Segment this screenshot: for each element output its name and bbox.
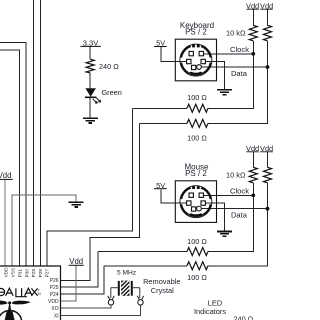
svg-text:Vdd: Vdd [0, 171, 11, 180]
ground below LED [83, 118, 98, 123]
mouse connector box [175, 181, 216, 223]
svg-text:Removable: Removable [143, 277, 180, 286]
svg-text:M: M [38, 292, 41, 296]
resistor R4 10k mouse clock pullup [249, 167, 257, 183]
svg-text:PS / 2: PS / 2 [185, 169, 207, 178]
ground keyboard connector [217, 90, 232, 95]
wire keyboard data row right segment [208, 67, 268, 123]
svg-text:P29: P29 [31, 269, 36, 278]
ground mouse connector [217, 232, 232, 237]
wire keyboard clock row left segment [132, 107, 187, 109]
svg-text:P30: P30 [24, 269, 29, 278]
svg-text:10 kΩ: 10 kΩ [226, 28, 246, 37]
svg-text:P28: P28 [38, 269, 43, 278]
wire mouse 5V feed [161, 190, 187, 203]
svg-text:240 Ω: 240 Ω [234, 315, 254, 320]
wire P28 net from top edge [39, 0, 41, 266]
svg-text:Clock: Clock [230, 187, 249, 196]
Parallax propeller beanie icon [0, 301, 31, 320]
label Vdd at left edge [0, 171, 13, 180]
resistor R3 10k keyboard data pullup [264, 25, 272, 41]
resistor R6 100 keyboard clock series [187, 104, 208, 112]
svg-text:Data: Data [231, 69, 248, 78]
wire P24 to mouse data row [61, 266, 104, 294]
chip right pin labels [48, 278, 59, 319]
resistor R2 10k keyboard clock pullup [249, 25, 257, 41]
svg-text:240 Ω: 240 Ω [99, 62, 119, 71]
wire P25 to mouse clock row [61, 252, 98, 288]
resistor R5 10k mouse data pullup [264, 167, 272, 183]
Parallax logo text [0, 288, 38, 297]
svg-text:P24: P24 [50, 292, 59, 298]
wire mouse data row left segment [104, 265, 187, 267]
svg-text:Indicators: Indicators [194, 307, 226, 316]
wire mouse clock row left segment [98, 251, 187, 253]
resistor R9 100 mouse data series [187, 262, 208, 270]
svg-text:100 Ω: 100 Ω [187, 273, 207, 282]
wire mouse 10k pullup right [267, 152, 269, 209]
wire keyboard 5V feed [161, 47, 187, 62]
resistor R1 240 ohm [86, 59, 94, 73]
wire keyboard 10k pullup right [267, 9, 269, 67]
wire VDD top pin stub [4, 180, 6, 266]
resistor R7 100 keyboard data series [187, 119, 208, 127]
wire mouse clock line [204, 194, 254, 196]
label mouse 5V [154, 181, 167, 190]
svg-text:VDD: VDD [3, 267, 8, 278]
svg-text:VSS: VSS [10, 268, 15, 277]
wire keyboard clock row right segment [208, 54, 253, 108]
crystal socket right [137, 296, 143, 305]
LED D1 green [85, 88, 101, 103]
wire P30 net from left edge [0, 43, 26, 266]
junction dot keyboard clock [251, 52, 255, 56]
label keyboard 5V [154, 39, 167, 48]
keyboard connector box [175, 39, 216, 81]
wire mouse clock row right segment [208, 196, 253, 252]
svg-text:XI: XI [54, 314, 59, 320]
ground for VSS pin [69, 202, 84, 207]
label mouse Vdd pair [246, 144, 273, 153]
wire keyboard connector ground lead [205, 61, 224, 89]
svg-text:P26: P26 [50, 278, 59, 284]
chip U1 Propeller outline [0, 266, 61, 320]
svg-text:PS / 2: PS / 2 [185, 27, 207, 36]
label keyboard Vdd pair [246, 1, 273, 10]
crystal socket left [108, 296, 114, 305]
svg-text:Crystal: Crystal [151, 286, 174, 295]
wire mouse connector ground lead [205, 203, 224, 231]
wire keyboard data line [202, 66, 268, 68]
wire P26 to keyboard data row [61, 123, 140, 280]
svg-text:Clock: Clock [230, 45, 249, 54]
wire P31 net from left edge [0, 50, 19, 266]
svg-text:5 MHz: 5 MHz [117, 269, 136, 276]
mouse PS/2 mini-DIN face [180, 186, 212, 218]
svg-text:P31: P31 [18, 269, 23, 278]
wire XO to crystal socket [61, 306, 112, 308]
label 3.3V [80, 38, 101, 47]
svg-text:Data: Data [231, 211, 248, 220]
svg-text:P25: P25 [50, 285, 59, 291]
keyboard PS/2 mini-DIN face [180, 44, 212, 76]
svg-text:10 kΩ: 10 kΩ [226, 170, 246, 179]
wire mouse 10k pullup left [252, 152, 254, 195]
wire keyboard data row left segment [139, 122, 187, 124]
wire mouse data row right segment [208, 209, 268, 266]
svg-text:XO: XO [51, 306, 58, 312]
wire keyboard clock line [204, 53, 254, 55]
svg-text:100 Ω: 100 Ω [187, 134, 207, 143]
svg-text:P27: P27 [44, 269, 49, 278]
junction dot mouse data [266, 207, 270, 211]
wire Vdd to chip VDD right pin [61, 266, 76, 301]
svg-text:VDD: VDD [48, 299, 59, 305]
svg-text:100 Ω: 100 Ω [187, 237, 207, 246]
wire P29 net from top edge [33, 0, 35, 266]
junction dot mouse clock [251, 194, 255, 198]
chip top pin labels rotated [3, 267, 49, 278]
resistor R8 100 mouse clock series [187, 248, 208, 256]
junction dot keyboard data [266, 65, 270, 69]
wire VSS pin to ground [12, 195, 76, 266]
wire keyboard 10k pullup left [252, 9, 254, 54]
wire XI to crystal socket [61, 306, 141, 316]
wire mouse data line [202, 208, 268, 210]
wire P27 to keyboard clock row [47, 108, 132, 266]
wire 3.3V LED chain [89, 47, 91, 118]
label Vdd near chip [69, 257, 84, 266]
crystal Y1 5 MHz [111, 281, 140, 299]
svg-text:Green: Green [102, 88, 122, 97]
svg-text:100 Ω: 100 Ω [187, 93, 207, 102]
